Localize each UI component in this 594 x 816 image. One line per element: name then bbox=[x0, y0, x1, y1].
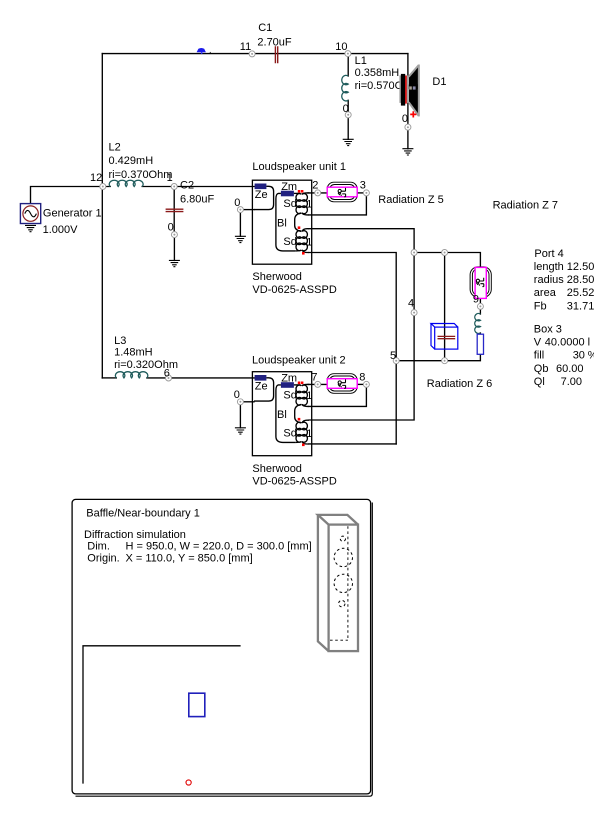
junction node at 445,252 bbox=[442, 250, 448, 256]
svg-text:C1: C1 bbox=[258, 22, 272, 34]
svg-text:9: 9 bbox=[473, 294, 479, 306]
svg-text:0: 0 bbox=[234, 197, 240, 209]
wire: radiation element to node 8 bbox=[357, 383, 366, 385]
svg-text:L3: L3 bbox=[114, 335, 126, 347]
svg-text:6: 6 bbox=[164, 367, 170, 379]
junction node at 445,361 bbox=[442, 358, 448, 364]
room boundary lines bbox=[83, 646, 241, 784]
unit lower secondary top lead bbox=[302, 229, 309, 232]
inductor L2 coil bbox=[109, 180, 143, 186]
svg-text:Diffraction simulation: Diffraction simulation bbox=[84, 529, 186, 541]
wire: radiation Z5 to node 3 bbox=[357, 192, 366, 194]
svg-text:31.71: 31.71 bbox=[567, 300, 594, 312]
svg-text:25.52: 25.52 bbox=[567, 287, 594, 299]
box 3 enclosure symbol bbox=[431, 324, 458, 350]
wire: top net from corner to D1 branch bbox=[102, 53, 408, 55]
unit Zm to transformer wire bbox=[294, 192, 301, 194]
unit Sd transformer lower primary coil bbox=[296, 422, 301, 442]
unit upper secondary bottom lead bbox=[302, 404, 309, 406]
baffle window shadow edge bbox=[76, 503, 373, 797]
svg-text:Sherwood: Sherwood bbox=[252, 271, 302, 283]
svg-text:area: area bbox=[534, 287, 557, 299]
radiation Z 5 element bbox=[327, 182, 357, 202]
capacitor C1 plates bbox=[275, 46, 277, 63]
svg-text:8: 8 bbox=[359, 371, 365, 383]
junction node at 414,252 bbox=[411, 250, 417, 256]
svg-text:fill: fill bbox=[534, 350, 544, 362]
svg-text:Bl: Bl bbox=[277, 217, 287, 229]
ground at unit1 node 0 bbox=[235, 236, 246, 242]
unit Zm impedance block bbox=[281, 382, 294, 388]
svg-text:Radiation Z 7: Radiation Z 7 bbox=[493, 200, 558, 212]
svg-text:3: 3 bbox=[360, 180, 366, 192]
node 8 bbox=[363, 381, 369, 387]
svg-text:4: 4 bbox=[408, 297, 414, 309]
unit lower secondary bottom lead bbox=[302, 442, 309, 445]
wire: D1 branch vertical bbox=[407, 54, 409, 128]
wire: D1 ground stub bbox=[407, 130, 409, 149]
svg-text:C2: C2 bbox=[180, 179, 194, 191]
node 12 junction bbox=[100, 184, 106, 190]
wire: port coil to resistor bbox=[479, 333, 481, 334]
box 3 internal capacitor plates bbox=[438, 336, 456, 338]
unit primary interlink bbox=[295, 213, 302, 232]
svg-text:VD-0625-ASSPD: VD-0625-ASSPD bbox=[252, 284, 336, 296]
svg-text:0: 0 bbox=[234, 389, 240, 401]
svg-text:1: 1 bbox=[306, 390, 312, 402]
node 6 bbox=[166, 375, 172, 381]
svg-text:ri=0.370Ohm: ri=0.370Ohm bbox=[109, 169, 173, 181]
svg-text:Qb: Qb bbox=[534, 363, 549, 375]
svg-text:Baffle/Near-boundary 1: Baffle/Near-boundary 1 bbox=[86, 507, 200, 519]
unit Ze impedance block bbox=[255, 184, 267, 190]
svg-text:L1: L1 bbox=[355, 55, 367, 67]
node 2 bbox=[315, 190, 321, 196]
svg-text:1: 1 bbox=[167, 172, 173, 184]
node 11 junction bbox=[249, 51, 255, 57]
svg-text:%: % bbox=[588, 350, 594, 362]
unit Sd transformer upper primary coil bbox=[296, 385, 301, 405]
port 4 loss resistor bbox=[477, 334, 483, 354]
unit Zm impedance block bbox=[281, 191, 294, 197]
cabinet driver cutouts (dashed circles) bbox=[334, 536, 352, 607]
svg-text:0: 0 bbox=[343, 103, 349, 115]
capacitor C2 plates bbox=[166, 209, 184, 211]
unit Zm to transformer wire bbox=[294, 384, 301, 386]
wire: unit2 node 8 return loop bbox=[309, 384, 366, 406]
node 0 at D1 bbox=[405, 124, 411, 130]
wire: generator to node 12 bbox=[31, 187, 111, 204]
port 4 series inductor coil bbox=[475, 314, 481, 334]
svg-text:30: 30 bbox=[573, 350, 585, 362]
svg-text:28.50: 28.50 bbox=[567, 274, 594, 286]
svg-text:Box 3: Box 3 bbox=[534, 324, 562, 336]
unit Bl coupling outline bbox=[276, 193, 295, 251]
unit Sd transformer lower secondary coil bbox=[302, 422, 307, 442]
node 5 bbox=[393, 358, 399, 364]
wire: L3 to node 6 to unit2 input bbox=[147, 377, 255, 379]
svg-text:60.00: 60.00 bbox=[556, 363, 584, 375]
node 0 at L1 bbox=[345, 112, 351, 118]
svg-text:Generator 1: Generator 1 bbox=[43, 207, 102, 219]
wire: port 4 to node 9 bbox=[479, 299, 481, 315]
svg-text:VD-0625-ASSPD: VD-0625-ASSPD bbox=[252, 476, 336, 488]
unit Ze return curve to node 0 bbox=[254, 186, 274, 209]
inductor L3 coil bbox=[115, 372, 147, 378]
wire: unit2 node 0 input bbox=[240, 401, 254, 403]
svg-text:Loudspeaker unit 2: Loudspeaker unit 2 bbox=[252, 355, 346, 367]
unit Ze impedance block bbox=[255, 375, 267, 381]
loudspeaker unit 1 box bbox=[252, 180, 312, 264]
unit Sd transformer lower secondary coil bbox=[302, 231, 307, 251]
svg-text:Bl: Bl bbox=[277, 409, 287, 421]
wire: L1 ground stub bbox=[347, 118, 349, 140]
wire: node 12 branch down to L3 bbox=[102, 377, 116, 379]
svg-text:6.80uF: 6.80uF bbox=[180, 194, 215, 206]
unit lower secondary bottom lead bbox=[302, 250, 309, 253]
svg-text:5: 5 bbox=[390, 350, 396, 362]
svg-text:0: 0 bbox=[168, 221, 174, 233]
svg-text:12: 12 bbox=[90, 172, 102, 184]
box 3 parameter text block bbox=[534, 324, 594, 388]
unit transformer polarity dots bbox=[298, 190, 301, 193]
ground at L1 node 0 bbox=[343, 139, 354, 145]
unit lower primary bottom lead bbox=[295, 441, 301, 444]
svg-text:length: length bbox=[534, 261, 564, 273]
svg-text:Loudspeaker unit 1: Loudspeaker unit 1 bbox=[252, 161, 346, 173]
node 0 at unit2 bbox=[237, 399, 243, 405]
wire: node 10 down to L1 bbox=[347, 54, 349, 76]
svg-text:Fb: Fb bbox=[534, 300, 547, 312]
wire: unit1 bottom tap to node 5 vertical bbox=[309, 253, 396, 444]
small tick on top wire bbox=[209, 52, 211, 54]
svg-text:1.48mH: 1.48mH bbox=[114, 347, 153, 359]
generator G1 symbol bbox=[20, 204, 40, 224]
svg-text:1.000V: 1.000V bbox=[43, 224, 79, 236]
source marker (red circle) bbox=[186, 780, 191, 785]
svg-text:10: 10 bbox=[335, 41, 347, 53]
unit Sd transformer upper primary coil bbox=[296, 194, 301, 214]
svg-text:Ze: Ze bbox=[255, 380, 268, 392]
svg-text:Origin.: Origin. bbox=[87, 552, 119, 564]
svg-text:11: 11 bbox=[240, 41, 251, 53]
svg-text:radius: radius bbox=[534, 274, 564, 286]
wire: L1 bottom to node 0 bbox=[347, 100, 349, 115]
wire: unit2 node 0 ground stub bbox=[239, 405, 241, 428]
unit upper secondary top lead to node bbox=[302, 193, 310, 194]
node 3 bbox=[363, 190, 369, 196]
loudspeaker unit 2 box bbox=[252, 372, 312, 456]
wire: unit1 node 0 input bbox=[240, 209, 254, 211]
unit lower secondary top lead bbox=[302, 420, 309, 423]
svg-text:Sd: Sd bbox=[283, 428, 296, 440]
radiation Z 6 element (unit2) bbox=[327, 374, 357, 394]
node 9 bbox=[477, 303, 483, 309]
svg-text:2.70uF: 2.70uF bbox=[257, 36, 292, 48]
svg-text:Sd: Sd bbox=[283, 198, 296, 210]
blue marker icon on top wire bbox=[197, 48, 206, 54]
svg-text:1: 1 bbox=[306, 428, 312, 440]
svg-text:0.358mH: 0.358mH bbox=[355, 67, 400, 79]
wire: unit2 node 7 to radiation Z6 element bbox=[308, 383, 327, 385]
svg-text:0.429mH: 0.429mH bbox=[109, 155, 154, 167]
cabinet hidden edges (dashed) bbox=[330, 526, 348, 640]
unit Ze return curve to node 0 bbox=[254, 378, 274, 401]
svg-text:12.50: 12.50 bbox=[567, 261, 594, 273]
wire: unit1 node 2 to radiation Z5 bbox=[308, 192, 327, 194]
svg-text:D1: D1 bbox=[432, 76, 446, 88]
tweeter D1 speaker symbol bbox=[399, 65, 419, 117]
svg-text:Sd: Sd bbox=[283, 390, 296, 402]
svg-text:H = 950.0, W = 220.0, D = 300.: H = 950.0, W = 220.0, D = 300.0 [mm] bbox=[126, 541, 312, 553]
svg-text:Sd: Sd bbox=[283, 236, 296, 248]
wire: junction row to port 4 bbox=[414, 253, 480, 268]
wire: vertical through node 4 to unit2 mid tap bbox=[309, 253, 414, 421]
svg-text:0: 0 bbox=[402, 113, 408, 125]
wire: main left vertical (node 12 net) bbox=[101, 54, 103, 378]
svg-text:1: 1 bbox=[306, 237, 312, 249]
ground at C2 node 0 bbox=[169, 260, 180, 266]
svg-text:L2: L2 bbox=[109, 141, 121, 153]
svg-text:Port 4: Port 4 bbox=[534, 248, 563, 260]
svg-text:40.0000 l: 40.0000 l bbox=[545, 337, 590, 349]
listening position marker (blue) bbox=[189, 693, 205, 716]
unit Sd transformer upper secondary coil bbox=[302, 194, 307, 214]
node 4 bbox=[411, 310, 417, 316]
ground at generator bbox=[25, 225, 36, 231]
wire: unit1 mid tap to junction node (414,252) bbox=[309, 229, 414, 253]
svg-text:7.00: 7.00 bbox=[561, 376, 582, 388]
svg-text:Dim.: Dim. bbox=[87, 541, 110, 553]
svg-text:V: V bbox=[534, 337, 542, 349]
svg-text:Radiation Z 5: Radiation Z 5 bbox=[378, 194, 443, 206]
svg-text:ri=0.570Ohm: ri=0.570Ohm bbox=[355, 80, 419, 92]
wire: node 1 down to C2 and node 0 bbox=[173, 187, 175, 235]
baffle window frame bbox=[72, 499, 371, 794]
unit Sd transformer upper secondary coil bbox=[302, 385, 307, 405]
ground at unit2 node 0 bbox=[235, 428, 246, 434]
inductor L1 coil bbox=[342, 75, 348, 101]
svg-text:Radiation Z 6: Radiation Z 6 bbox=[427, 378, 492, 390]
svg-text:Zm: Zm bbox=[281, 373, 297, 385]
wire: L2 to node 1 to loudspeaker unit 1 input bbox=[142, 186, 255, 188]
node 10 junction bbox=[345, 51, 351, 57]
node 0 at unit1 bbox=[237, 207, 243, 213]
node 7 bbox=[315, 381, 321, 387]
unit transformer polarity dots bbox=[298, 382, 301, 385]
svg-text:7: 7 bbox=[311, 371, 317, 383]
D1 polarity + mark bbox=[410, 111, 416, 117]
wire: vertical through box 3 bbox=[444, 253, 446, 361]
ground at D1 node 0 bbox=[402, 149, 413, 155]
unit lower primary bottom lead bbox=[295, 249, 301, 252]
wire: unit1 node 0 ground stub bbox=[239, 212, 241, 236]
wire: C2 ground stub bbox=[173, 237, 175, 260]
port 4 radiation element bbox=[470, 267, 491, 299]
svg-text:2: 2 bbox=[312, 180, 318, 192]
svg-text:Ql: Ql bbox=[534, 376, 545, 388]
unit Sd transformer lower primary coil bbox=[296, 231, 301, 251]
unit upper secondary top lead to node bbox=[302, 384, 310, 385]
svg-text:1: 1 bbox=[306, 199, 312, 211]
unit Bl coupling outline bbox=[276, 385, 295, 443]
unit primary interlink bbox=[295, 404, 302, 423]
svg-text:X = 110.0, Y = 850.0 [mm]: X = 110.0, Y = 850.0 [mm] bbox=[126, 552, 253, 564]
svg-text:Ze: Ze bbox=[255, 189, 268, 201]
wire: unit2 bottom tap to node 5 vertical bbox=[309, 443, 396, 445]
node 1 junction bbox=[171, 184, 177, 190]
unit upper secondary bottom lead bbox=[302, 213, 309, 215]
svg-text:Zm: Zm bbox=[281, 181, 297, 193]
wire: bottom row node 5 to port resistor bbox=[396, 354, 480, 361]
wire: node 3 return loop into unit1 bbox=[309, 193, 366, 215]
svg-text:Sherwood: Sherwood bbox=[252, 463, 302, 475]
port 4 parameter text block bbox=[534, 248, 594, 312]
node 0 at C2 bbox=[171, 232, 177, 238]
cabinet 3D outline bbox=[318, 515, 358, 651]
